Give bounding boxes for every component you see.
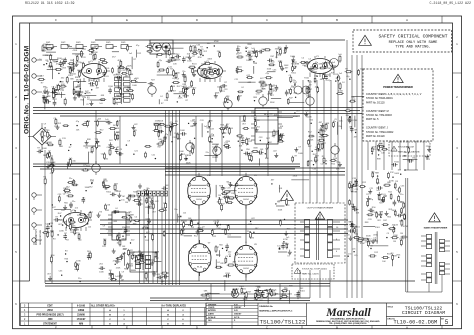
svg-text:22n: 22n (400, 194, 403, 196)
svg-text:100K: 100K (268, 113, 273, 115)
svg-text:1M: 1M (347, 120, 350, 122)
svg-text:1M: 1M (226, 197, 229, 199)
svg-text:330K: 330K (215, 93, 220, 95)
svg-text:330K: 330K (110, 274, 115, 276)
svg-text:1M: 1M (113, 125, 116, 127)
svg-text:330K: 330K (86, 93, 91, 95)
svg-text:22n: 22n (206, 152, 209, 154)
svg-text:470K: 470K (73, 50, 78, 52)
svg-text:220K: 220K (309, 140, 314, 142)
svg-text:220K: 220K (256, 286, 261, 288)
svg-text:22n: 22n (302, 65, 305, 67)
svg-text:F: F (55, 18, 57, 22)
svg-text:220K: 220K (426, 146, 431, 148)
svg-text:22n: 22n (174, 209, 177, 211)
svg-text:N/M: N/M (79, 323, 83, 325)
svg-text:330K: 330K (293, 176, 298, 178)
svg-text:SEND RETURN: SEND RETURN (40, 229, 42, 245)
svg-text:ISS: ISS (208, 320, 212, 322)
svg-text:ZR18: ZR18 (47, 310, 53, 312)
svg-text:22n: 22n (83, 164, 86, 166)
svg-text:1M: 1M (129, 94, 132, 96)
svg-text:330K: 330K (126, 213, 131, 215)
svg-text:220K: 220K (155, 121, 160, 123)
svg-text:1M: 1M (60, 66, 63, 68)
svg-text:EL34: EL34 (196, 199, 202, 201)
svg-text:220K: 220K (372, 146, 377, 148)
svg-text:1M: 1M (354, 130, 357, 132)
svg-text:PRE-PROD MODS (2017): PRE-PROD MODS (2017) (37, 314, 64, 316)
svg-text:100K: 100K (99, 271, 104, 273)
svg-text:Marshall: Marshall (325, 305, 371, 319)
svg-text:MAINS TRANSFORMER: MAINS TRANSFORMER (424, 227, 448, 230)
svg-text:TL10-60-02.DGM: TL10-60-02.DGM (394, 319, 438, 325)
svg-text:F: F (55, 325, 57, 329)
svg-text:330K: 330K (121, 239, 126, 241)
svg-text:1M: 1M (122, 196, 125, 198)
svg-text:22n: 22n (146, 188, 149, 190)
svg-text:22n: 22n (72, 226, 75, 228)
svg-text:E: E (126, 18, 128, 22)
svg-text:ORIG.No. TL10-60-02.DGM: ORIG.No. TL10-60-02.DGM (23, 45, 30, 134)
svg-text:STOCK No. TXOP-00001: STOCK No. TXOP-00001 (302, 269, 328, 271)
svg-text:100K: 100K (127, 66, 132, 68)
svg-text:470K: 470K (308, 161, 313, 163)
svg-text:470K: 470K (279, 137, 284, 139)
svg-text:JDM: JDM (48, 319, 53, 321)
svg-text:220K: 220K (93, 52, 98, 54)
svg-text:REPLACE ONLY WITH SAME: REPLACE ONLY WITH SAME (389, 41, 438, 45)
svg-text:23/9/98: 23/9/98 (77, 314, 85, 316)
svg-text:22n: 22n (72, 201, 75, 203)
svg-text:330K: 330K (186, 163, 191, 165)
svg-text:100K: 100K (77, 70, 82, 72)
svg-text:APPRD: APPRD (208, 309, 216, 312)
svg-text:220K: 220K (116, 268, 121, 270)
svg-text:RCL2122 91 315 1032 13:39: RCL2122 91 315 1032 13:39 (25, 1, 74, 5)
svg-text:470K: 470K (256, 292, 261, 294)
svg-text:A: A (406, 325, 408, 329)
svg-text:22n: 22n (82, 197, 85, 199)
svg-text:470K: 470K (241, 121, 246, 123)
svg-text:TITLE: TITLE (387, 306, 393, 308)
svg-text:330K: 330K (243, 299, 248, 301)
svg-text:C-2118_00_05_L122 A22: C-2118_00_05_L122 A22 (429, 1, 471, 5)
svg-text:EL34: EL34 (197, 267, 203, 269)
svg-text:22n: 22n (69, 178, 72, 180)
svg-text:S.D: S.D (234, 310, 238, 312)
svg-text:E: E (126, 325, 128, 329)
svg-text:ALL OTHER RELAYS+: ALL OTHER RELAYS+ (91, 304, 116, 307)
svg-text:220K: 220K (190, 51, 195, 53)
svg-text:22n: 22n (78, 278, 81, 280)
svg-text:1M: 1M (281, 246, 284, 248)
svg-text:470K: 470K (283, 239, 288, 241)
svg-text:22n: 22n (321, 137, 324, 139)
svg-text:PART No. C3070: PART No. C3070 (302, 273, 319, 276)
svg-text:330K: 330K (128, 266, 133, 268)
svg-text:470K: 470K (319, 144, 324, 146)
svg-text:SAFETY CRITICAL COMPONENT: SAFETY CRITICAL COMPONENT (379, 33, 448, 39)
svg-text:SCALE: SCALE (208, 316, 216, 319)
svg-text:CIRCUIT DIAGRAM: CIRCUIT DIAGRAM (402, 310, 445, 316)
svg-text:22n: 22n (237, 46, 240, 48)
svg-text:330K: 330K (85, 187, 90, 189)
svg-text:330K: 330K (145, 207, 150, 209)
svg-text:470K: 470K (225, 141, 230, 143)
svg-text:1M: 1M (400, 233, 403, 235)
svg-text:22n: 22n (333, 121, 336, 123)
svg-text:220K: 220K (216, 255, 221, 257)
svg-text:1/8/99: 1/8/99 (78, 310, 85, 312)
svg-text:POWER TRANSFORMER: POWER TRANSFORMER (383, 86, 413, 89)
svg-text:OUTPUT TRANSFORMER: OUTPUT TRANSFORMER (307, 207, 334, 210)
svg-text:1M: 1M (125, 202, 128, 204)
svg-text:1M: 1M (377, 150, 380, 152)
svg-text:1M: 1M (349, 127, 352, 129)
svg-text:470K: 470K (46, 44, 51, 46)
svg-text:B: B (336, 18, 338, 22)
svg-text:220K: 220K (90, 86, 95, 88)
svg-text:22n: 22n (360, 68, 363, 70)
svg-text:22n: 22n (247, 231, 250, 233)
svg-text:22n: 22n (403, 152, 406, 154)
svg-text:470K: 470K (170, 86, 175, 88)
svg-text:220K: 220K (59, 231, 64, 233)
svg-text:100K: 100K (152, 252, 157, 254)
svg-text:220K: 220K (365, 242, 370, 244)
svg-text:470K: 470K (293, 116, 298, 118)
svg-text:1M: 1M (70, 60, 73, 62)
svg-text:330K: 330K (278, 61, 283, 63)
svg-text:EL34: EL34 (243, 199, 249, 201)
svg-text:1M: 1M (217, 201, 220, 203)
svg-text:22n: 22n (291, 86, 294, 88)
svg-text:COUNTRY IDENTs: A, B, C, D, E,: COUNTRY IDENTs: A, B, C, D, E, G, K, S, … (366, 93, 422, 96)
svg-text:470K: 470K (399, 239, 404, 241)
svg-text:22n: 22n (207, 43, 210, 45)
svg-text:100K: 100K (394, 173, 399, 175)
svg-text:100K: 100K (180, 130, 185, 132)
svg-text:100K: 100K (95, 141, 100, 143)
svg-text:PART No. DC120: PART No. DC120 (366, 101, 385, 104)
svg-text:STOCK No.TXMA-00001: STOCK No.TXMA-00001 (366, 97, 393, 100)
svg-text:220K: 220K (175, 73, 180, 75)
svg-text:330K: 330K (393, 235, 398, 237)
svg-text:22n: 22n (327, 75, 330, 77)
svg-text:B: B (336, 325, 338, 329)
svg-text:1M: 1M (393, 241, 396, 243)
svg-text:100K: 100K (314, 160, 319, 162)
svg-text:22n: 22n (50, 231, 53, 233)
svg-text:STATEMENT: STATEMENT (43, 322, 57, 325)
svg-text:22n: 22n (267, 94, 270, 96)
svg-text:100K: 100K (187, 60, 192, 62)
svg-text:220K: 220K (107, 233, 112, 235)
svg-text:1M: 1M (243, 116, 246, 118)
svg-text:100K: 100K (338, 91, 343, 93)
svg-text:22n: 22n (116, 235, 119, 237)
svg-text:1M: 1M (109, 270, 112, 272)
svg-text:COUNTRY IDENT: J: COUNTRY IDENT: J (366, 127, 389, 130)
svg-text:22n: 22n (174, 133, 177, 135)
svg-text:TEL: (01908) 375411. FAX: (01: TEL: (01908) 375411. FAX: (01908) 376118… (329, 322, 367, 325)
svg-text:1M: 1M (251, 238, 254, 240)
svg-text:17/11/97: 17/11/97 (77, 319, 87, 321)
svg-text:1M: 1M (121, 280, 124, 282)
svg-text:1M: 1M (190, 126, 193, 128)
svg-text:220K: 220K (228, 128, 233, 130)
svg-text:K+/-THRU DISPLAYED: K+/-THRU DISPLAYED (162, 304, 187, 307)
svg-text:22n: 22n (347, 234, 350, 236)
svg-text:PART No. 5: PART No. 5 (366, 118, 379, 121)
svg-text:220K: 220K (178, 98, 183, 100)
svg-text:330K: 330K (366, 236, 371, 238)
svg-text:COUNTRY IDENT: M: COUNTRY IDENT: M (366, 110, 389, 113)
svg-text:22n: 22n (219, 199, 222, 201)
svg-text:EDIT: EDIT (47, 305, 53, 307)
svg-text:470K: 470K (76, 261, 81, 263)
svg-text:220K: 220K (69, 223, 74, 225)
svg-text:A: A (406, 18, 408, 22)
svg-text:220K: 220K (307, 117, 312, 119)
svg-text:22n: 22n (352, 249, 355, 251)
svg-text:330K: 330K (253, 147, 258, 149)
svg-text:220K: 220K (182, 76, 187, 78)
svg-text:100K: 100K (323, 160, 328, 162)
svg-text:470K: 470K (360, 243, 365, 245)
svg-text:100K: 100K (179, 151, 184, 153)
svg-text:CHKD: CHKD (208, 307, 215, 309)
svg-text:100K: 100K (59, 82, 64, 84)
svg-text:FOOTSWITCH: FOOTSWITCH (36, 229, 38, 245)
svg-text:1M: 1M (283, 53, 286, 55)
svg-text:1M: 1M (107, 204, 110, 206)
svg-text:DRAWING No: DRAWING No (259, 305, 273, 308)
svg-text:330K: 330K (359, 238, 364, 240)
svg-text:1M: 1M (218, 195, 221, 197)
svg-text:470K: 470K (214, 41, 219, 43)
svg-text:100K: 100K (378, 214, 383, 216)
svg-text:PART No. DC120: PART No. DC120 (366, 135, 385, 138)
svg-text:330K: 330K (47, 142, 52, 144)
svg-text:100K: 100K (298, 153, 303, 155)
svg-text:470K: 470K (126, 221, 131, 223)
svg-text:330K: 330K (80, 95, 85, 97)
svg-text:330K: 330K (261, 49, 266, 51)
svg-text:470K: 470K (203, 76, 208, 78)
svg-text:22n: 22n (227, 187, 230, 189)
svg-text:22n: 22n (243, 289, 246, 291)
svg-text:100K: 100K (132, 85, 137, 87)
svg-text:18/3/97: 18/3/97 (234, 307, 242, 309)
svg-text:330K: 330K (270, 102, 275, 104)
svg-text:330K: 330K (247, 44, 252, 46)
svg-text:330K: 330K (392, 210, 397, 212)
svg-text:100K: 100K (42, 148, 47, 150)
svg-text:220K: 220K (277, 201, 282, 203)
svg-text:DATE: DATE (208, 313, 214, 316)
svg-text:330K: 330K (207, 59, 212, 61)
svg-text:STOCK No. TXM-00003: STOCK No. TXM-00003 (366, 114, 392, 117)
svg-text:100K: 100K (278, 209, 283, 211)
svg-text:TSL100/TSL122: TSL100/TSL122 (260, 318, 306, 325)
svg-text:470K: 470K (403, 226, 408, 228)
svg-text:220K: 220K (282, 294, 287, 296)
svg-text:N.T.S: N.T.S (234, 317, 240, 319)
svg-text:TYPE AND RATING.: TYPE AND RATING. (395, 46, 430, 50)
svg-text:1M: 1M (403, 219, 406, 221)
svg-text:1M: 1M (45, 55, 48, 57)
svg-text:100K: 100K (176, 59, 181, 61)
svg-text:EL34: EL34 (243, 268, 249, 270)
svg-text:18/3/97: 18/3/97 (234, 314, 242, 316)
svg-text:6-18-98: 6-18-98 (77, 305, 86, 307)
svg-text:MARSHALL AMPLIFICATION PLC: MARSHALL AMPLIFICATION PLC (259, 309, 292, 312)
svg-text:22n: 22n (182, 71, 185, 73)
svg-text:STOCK No. TXMA-00002: STOCK No. TXMA-00002 (366, 131, 394, 134)
svg-text:22n: 22n (338, 126, 341, 128)
svg-text:100K: 100K (267, 69, 272, 71)
